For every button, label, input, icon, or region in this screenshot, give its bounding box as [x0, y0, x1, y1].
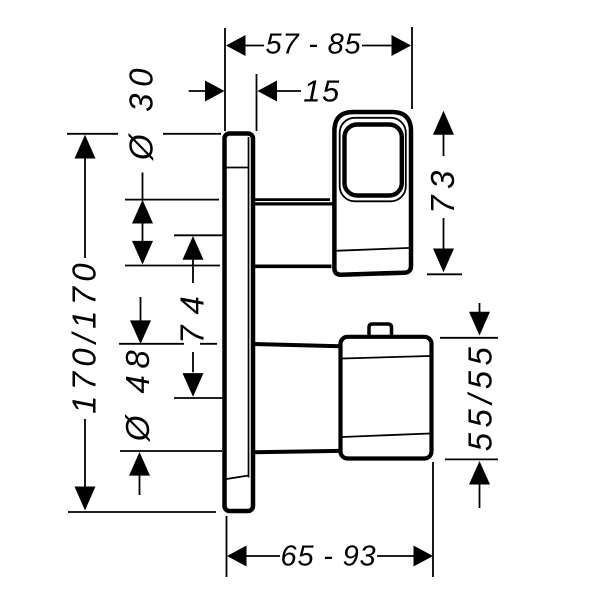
svg-text:57 - 85: 57 - 85	[266, 29, 362, 61]
dim 73 line bottom	[443, 218, 445, 249]
dim 57-85 line right	[362, 45, 410, 47]
ext line stem1 top	[125, 199, 219, 201]
svg-text:15: 15	[303, 74, 340, 109]
plate front inner line	[248, 137, 250, 478]
dim dia48 leader top	[140, 297, 142, 321]
knob body	[341, 337, 432, 459]
knob inner line 2	[343, 434, 430, 438]
ext line plate top-left segment 1	[67, 133, 118, 135]
dim 73 leader top	[443, 135, 445, 156]
handle hole outer thin	[340, 118, 406, 202]
dim 74 line bottom	[192, 352, 194, 372]
dim 57-85 arrow left	[226, 35, 246, 56]
ext line stem2 axis	[174, 397, 226, 399]
ext line wall top	[224, 28, 226, 131]
dim dia48 arrow top	[130, 320, 151, 344]
dim 74 arrow top	[183, 236, 204, 260]
svg-text:65 - 93: 65 - 93	[281, 541, 377, 573]
dim dia30 line mid	[142, 223, 144, 241]
svg-text:73: 73	[424, 164, 461, 214]
plate top chamfer line	[227, 167, 249, 169]
dim 55/55 leader bottom	[479, 485, 481, 509]
lower stem bottom line	[254, 451, 340, 452]
dim 74 line top	[192, 260, 194, 283]
svg-text:55/55: 55/55	[462, 342, 499, 452]
dim 65-93 line right	[377, 555, 414, 557]
dim 170/170 line top	[84, 159, 86, 259]
ext line stem2 bottom	[120, 450, 222, 452]
dim 57-85 line left	[228, 45, 264, 47]
handle hole inner thick	[345, 125, 402, 196]
dim 170/170 line bottom	[84, 419, 86, 487]
ext line wall bottom	[226, 516, 228, 577]
upper stem top line b	[252, 202, 335, 205]
svg-text:Ø 30: Ø 30	[123, 62, 160, 161]
ext line plate bottom-left	[68, 511, 216, 513]
dim 57-85 arrow right	[392, 35, 412, 56]
dim 55/55 arrow top	[469, 312, 490, 336]
dim 65-93 arrow left	[227, 546, 247, 567]
upper stem top line a	[255, 198, 330, 201]
ext line stem2 top segment 2	[200, 343, 217, 345]
dim 74 arrow bottom	[183, 373, 204, 397]
dim 65-93 line left	[246, 555, 280, 557]
ext line stem2 top segment 1	[119, 343, 184, 345]
dim 55/55 leader top	[479, 303, 481, 313]
dim dia48 leader bottom	[139, 476, 141, 495]
ext line knob top	[440, 337, 498, 339]
knob tab	[369, 324, 392, 338]
ext line plate front top	[256, 74, 258, 131]
ext line handle front	[411, 27, 413, 109]
dim dia30 arrow up	[132, 200, 153, 224]
svg-text:Ø 48: Ø 48	[119, 344, 156, 443]
wall plate outline	[225, 134, 254, 512]
dim 73 arrow bottom	[433, 249, 454, 273]
svg-text:170/170: 170/170	[66, 258, 103, 414]
dim 15 tail left	[189, 90, 206, 92]
knob inner line 1	[343, 356, 430, 359]
dim 15 arrow left	[205, 81, 225, 102]
dim 15 arrow right	[258, 81, 278, 102]
ext line plate top-left segment 2	[163, 133, 221, 135]
ext line stem1 axis	[174, 234, 226, 236]
lower stem top line	[254, 344, 340, 346]
dim 170/170 arrow top	[75, 135, 96, 159]
dim dia30 leader	[142, 173, 144, 201]
ext line knob front	[432, 462, 434, 577]
handle band line	[335, 248, 411, 251]
plate bottom chamfer line	[227, 476, 249, 480]
svg-text:74: 74	[174, 285, 211, 344]
dim 73 arrow top	[433, 111, 454, 135]
dim 65-93 arrow right	[414, 546, 434, 567]
dim 55/55 arrow bottom	[469, 461, 490, 485]
dim dia30 arrow down	[132, 241, 153, 265]
handle outline	[334, 112, 411, 275]
ext line stem1 bottom	[125, 265, 220, 267]
dim dia48 arrow bottom	[129, 452, 150, 476]
ext line knob bottom	[445, 458, 498, 460]
ext line handle bottom	[427, 273, 462, 275]
dim 170/170 arrow bottom	[75, 487, 96, 511]
dim 15 tail right	[276, 90, 301, 92]
upper stem bottom line	[252, 264, 332, 268]
